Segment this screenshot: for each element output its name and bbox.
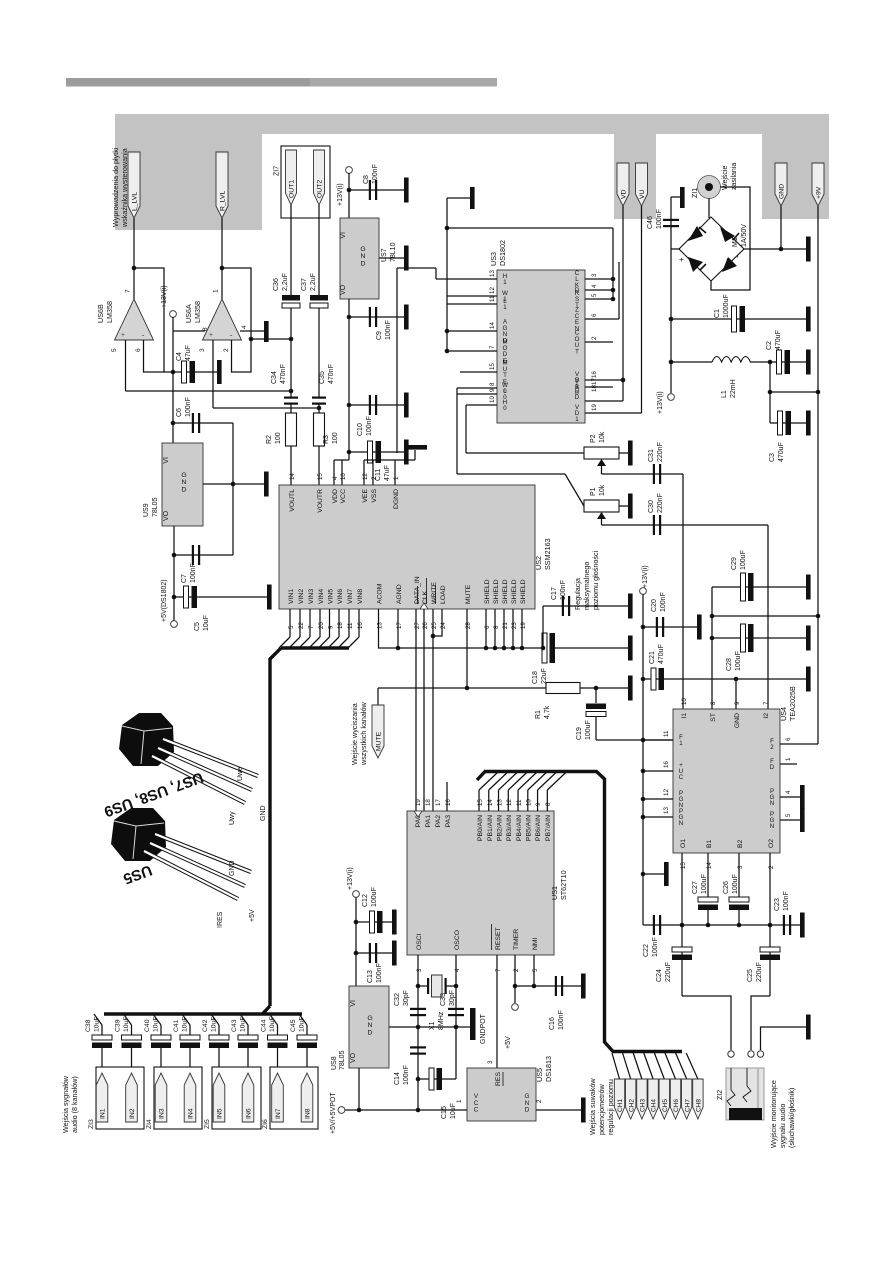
svg-text:OUT2: OUT2 [317, 180, 324, 198]
connector pin VD [617, 163, 629, 206]
svg-text:X1: X1 [429, 1021, 436, 1030]
wire jack sleeve to ground [761, 1027, 807, 1050]
wire 13V mcu rail [355, 898, 357, 987]
svg-text:CH2: CH2 [628, 1099, 635, 1112]
wire US6A plus input [212, 340, 214, 408]
svg-text:GND: GND [229, 860, 236, 876]
svg-text:N: N [182, 479, 187, 486]
connector pin CH7 [682, 1079, 692, 1119]
junction L1 out [768, 360, 773, 365]
svg-text:ZI6: ZI6 [262, 1119, 269, 1129]
svg-text:L1: L1 [721, 390, 728, 398]
svg-text:+5V: +5V [249, 909, 256, 922]
op-amp US6A LM358 [203, 299, 242, 340]
connector pin MUTE input [377, 688, 379, 705]
svg-text:13: 13 [377, 622, 384, 629]
wire C39 to pin [131, 1048, 133, 1073]
svg-text:470uF: 470uF [658, 644, 665, 664]
svg-text:C29: C29 [731, 557, 738, 570]
wire B2 down [738, 853, 740, 897]
wire OSCI down [417, 955, 419, 1110]
capacitor C3 470uF [770, 422, 806, 424]
svg-text:IN4: IN4 [188, 1108, 195, 1119]
svg-text:GNDPOT: GNDPOT [480, 1013, 487, 1044]
svg-text:ZI2: ZI2 [717, 1090, 724, 1100]
svg-text:28: 28 [465, 622, 472, 629]
svg-text:PB0/AIN: PB0/AIN [477, 815, 484, 841]
svg-text:D: D [770, 764, 775, 771]
svg-text:5: 5 [785, 813, 792, 817]
svg-text:11: 11 [516, 799, 523, 806]
connector pin IN3 [155, 1073, 167, 1122]
svg-text:P2: P2 [590, 434, 597, 443]
junction C9 [347, 315, 352, 320]
junction C8 [347, 188, 352, 193]
wire US7 VO down [348, 299, 350, 460]
ground C4 [217, 360, 222, 384]
net +5V(DS1802) [171, 621, 178, 628]
svg-text:27: 27 [414, 622, 421, 629]
wire US3 logic rail vertical [446, 198, 448, 296]
svg-text:10uF: 10uF [269, 1017, 276, 1033]
svg-text:C12: C12 [362, 894, 369, 907]
svg-text:VIN3: VIN3 [308, 589, 315, 604]
svg-text:47uF: 47uF [384, 465, 391, 481]
junction GND pin9 US4 [734, 677, 739, 682]
wire C6 line [173, 422, 233, 424]
capacitor C14 100nF [410, 1046, 426, 1048]
svg-text:OSCO: OSCO [454, 930, 461, 950]
connector pin CH8 [693, 1079, 703, 1119]
svg-text:VIN8: VIN8 [357, 589, 364, 604]
wire VD drop to pin16 pin18 [622, 206, 624, 401]
svg-text:audio (8 kanałów): audio (8 kanałów) [70, 1076, 79, 1133]
svg-text:8: 8 [545, 802, 552, 806]
svg-text:9: 9 [328, 625, 335, 629]
svg-text:C24: C24 [656, 969, 663, 982]
jack ZI2 black base [729, 1108, 762, 1120]
wire C38 to pin [101, 1048, 103, 1073]
capacitor C13 100nF [356, 952, 392, 954]
svg-text:10uF: 10uF [203, 615, 210, 631]
svg-text:100uF: 100uF [735, 651, 742, 671]
wire US6B feedback loop [134, 268, 164, 372]
svg-text:maksymalnego: maksymalnego [582, 562, 591, 610]
wire boucherot line [643, 924, 800, 926]
wire C1 line [671, 318, 806, 320]
bus audio-in thick [281, 646, 349, 649]
svg-text:RES: RES [495, 1072, 502, 1086]
ground C16 [581, 974, 586, 999]
svg-text:12: 12 [489, 287, 496, 294]
svg-text:Wejście: Wejście [722, 166, 729, 190]
svg-text:10uF: 10uF [211, 1017, 218, 1033]
svg-text:N: N [770, 800, 774, 807]
svg-text:C32: C32 [394, 993, 401, 1006]
svg-text:2: 2 [223, 348, 230, 352]
svg-text:OUT1: OUT1 [289, 180, 296, 198]
connector ZI3 box [96, 1067, 144, 1129]
wire GND pin9 up [735, 679, 737, 709]
svg-text:4: 4 [241, 325, 248, 329]
wire US3 logic rail horizontal [447, 227, 613, 229]
svg-text:VO: VO [340, 284, 347, 295]
junction C34 [289, 389, 294, 394]
svg-text:2: 2 [513, 968, 520, 972]
capacitor C26 100uF [729, 897, 749, 902]
svg-text:11: 11 [347, 622, 354, 629]
svg-text:R_LVL: R_LVL [220, 191, 227, 211]
capacitor C46 [663, 219, 679, 221]
svg-text:SHIELD: SHIELD [511, 579, 518, 604]
junction C21 [641, 677, 646, 682]
svg-text:24: 24 [440, 622, 447, 629]
wire US6A feedback loop [222, 268, 251, 372]
connector pin IN1 [96, 1073, 108, 1122]
svg-text:ZI4: ZI4 [146, 1119, 153, 1129]
wire US3 left rail [446, 296, 448, 351]
ground C23 [800, 913, 805, 938]
svg-text:10uF: 10uF [153, 1017, 160, 1033]
diode M1 bottom-left [688, 257, 703, 272]
svg-text:C16: C16 [549, 1017, 556, 1030]
svg-text:VU: VU [639, 189, 646, 199]
ground PGN left [643, 873, 664, 875]
svg-text:220nF: 220nF [657, 442, 664, 462]
svg-text:100nF: 100nF [366, 416, 373, 436]
svg-text:zasilania: zasilania [731, 163, 738, 190]
svg-text:22mH: 22mH [730, 379, 737, 398]
svg-text:100uF: 100uF [371, 887, 378, 907]
ground C21 [806, 667, 811, 692]
svg-text:VIN1: VIN1 [288, 589, 295, 604]
svg-text:6: 6 [591, 313, 598, 317]
wire +UC [643, 770, 673, 772]
wire US3 clk rail [612, 228, 614, 299]
wire VU drop to pin19 [641, 206, 643, 413]
svg-text:C18: C18 [532, 671, 539, 684]
junction US9 gnd [231, 482, 236, 487]
diode M1 top-right [720, 227, 735, 242]
svg-text:470uF: 470uF [778, 442, 785, 462]
diode M1 top-left [688, 226, 703, 241]
wire 13V opamp rail [172, 317, 174, 443]
svg-text:10: 10 [526, 799, 533, 806]
svg-text:4,7k: 4,7k [544, 705, 551, 719]
svg-text:11: 11 [663, 730, 670, 737]
svg-text:US6A: US6A [184, 304, 193, 323]
connector ZI4 box [154, 1067, 202, 1129]
svg-text:100uF: 100uF [740, 550, 747, 570]
svg-text:15: 15 [680, 862, 687, 869]
svg-text:LOAD: LOAD [440, 585, 447, 604]
capacitor C39 10uF [122, 1035, 142, 1040]
junction C35 bottom [317, 406, 322, 411]
svg-text:CH4: CH4 [651, 1099, 658, 1112]
capacitor C17 100nF [562, 596, 564, 616]
svg-text:78L05: 78L05 [152, 497, 159, 517]
svg-text:C4: C4 [176, 352, 183, 361]
ground bracket stem [414, 450, 416, 460]
junction US6B feedback [132, 266, 137, 271]
wire US6B output to L_LVL [133, 218, 135, 299]
net +5V/+5VPOT [338, 1107, 345, 1114]
svg-text:470uF: 470uF [775, 330, 782, 350]
wire US3 pin6 stub [585, 318, 619, 320]
svg-text:470nF: 470nF [280, 364, 287, 384]
capacitor C44 10uF [268, 1035, 288, 1040]
svg-text:VSS: VSS [371, 489, 378, 503]
junction +UC [641, 738, 646, 743]
clock mark OSCI [414, 811, 422, 817]
resistor R1 4.7k [546, 683, 580, 694]
svg-text:US4: US4 [779, 707, 788, 721]
svg-text:(słuchawki/głośnik): (słuchawki/głośnik) [787, 1088, 796, 1148]
svg-text:78L05: 78L05 [339, 1050, 346, 1070]
svg-text:AGND: AGND [396, 584, 403, 604]
svg-text:IN1: IN1 [100, 1108, 107, 1119]
svg-text:7: 7 [763, 701, 770, 705]
svg-text:SHIELD: SHIELD [502, 579, 509, 604]
wire OSCO down [455, 955, 457, 1079]
svg-text:3: 3 [591, 273, 598, 277]
svg-text:TIMER: TIMER [513, 929, 520, 950]
svg-text:100nF: 100nF [656, 209, 663, 229]
junction US6A feedback [220, 266, 225, 271]
svg-text:PB2/AIN: PB2/AIN [497, 815, 504, 841]
svg-text:C33: C33 [440, 993, 447, 1006]
bridge rectifier M1 diamond [679, 217, 744, 281]
wire to +9V rail [770, 391, 818, 393]
svg-text:O2: O2 [768, 839, 775, 848]
svg-text:MUTE: MUTE [465, 584, 472, 604]
wire US3 pin13 to VD net [436, 278, 497, 280]
ground US3 logic rail [447, 197, 470, 199]
svg-text:GND: GND [779, 184, 786, 199]
wire B1 down [707, 853, 709, 897]
svg-text:Regulacja: Regulacja [573, 578, 582, 610]
wire 13V rail [348, 173, 350, 218]
ground C9 [404, 305, 409, 330]
svg-text:IN7: IN7 [275, 1108, 282, 1119]
ground C28 [806, 626, 811, 651]
connector pin GND (power) [775, 163, 787, 206]
capacitor C9 100nF [349, 316, 404, 318]
jack ZI2 body [726, 1068, 764, 1120]
wire O2 to jack ring [751, 996, 770, 1050]
svg-text:1: 1 [456, 1099, 463, 1103]
svg-text:7: 7 [495, 968, 502, 972]
regulator US9 78L05 box [162, 443, 203, 526]
svg-text:T: T [575, 348, 579, 355]
wire US3 pin12 [447, 295, 497, 297]
wire O2 down [769, 853, 771, 996]
svg-text:C46: C46 [647, 216, 654, 229]
wire +9V rail down [817, 206, 819, 744]
svg-text:22: 22 [298, 622, 305, 629]
svg-text:PB3/AIN: PB3/AIN [506, 815, 513, 841]
svg-text:C10: C10 [357, 423, 364, 436]
svg-text:+9V: +9V [816, 186, 823, 199]
wire L1 out [750, 361, 770, 363]
svg-text:19: 19 [591, 404, 598, 411]
svg-text:10uF: 10uF [123, 1017, 130, 1033]
svg-text:US9: US9 [143, 503, 150, 517]
svg-text:O1: O1 [680, 839, 687, 848]
svg-text:PA2: PA2 [435, 815, 442, 828]
svg-text:3: 3 [487, 1060, 494, 1064]
svg-text:Wejścia suwaków: Wejścia suwaków [588, 1078, 597, 1135]
svg-text:23: 23 [511, 622, 518, 629]
junction SHIELD pins [485, 609, 487, 648]
svg-text:C25: C25 [747, 969, 754, 982]
svg-text:N: N [770, 823, 774, 830]
svg-text:Uwy: Uwy [229, 811, 236, 825]
svg-text:+13V(i): +13V(i) [161, 285, 168, 308]
svg-text:13: 13 [489, 270, 496, 277]
svg-text:100nF: 100nF [385, 320, 392, 340]
wire US3 pin10 [466, 404, 497, 406]
wire 9V cross line [712, 615, 818, 617]
svg-text:+: + [121, 331, 125, 339]
svg-text:26: 26 [422, 622, 429, 629]
svg-text:8: 8 [493, 625, 500, 629]
wire C41 to pin [189, 1048, 191, 1073]
svg-text:1: 1 [393, 476, 400, 480]
svg-text:5: 5 [591, 293, 598, 297]
svg-text:VI: VI [163, 457, 170, 464]
GNDPOT bar [470, 1008, 476, 1040]
capacitor C40 10uF [151, 1035, 171, 1040]
svg-text:100: 100 [332, 432, 339, 444]
svg-text:2: 2 [591, 336, 598, 340]
IC US5 DS1813 box [467, 1068, 536, 1121]
svg-text:poziomu głośności: poziomu głośności [591, 550, 600, 610]
capacitor C18 22uF [542, 633, 547, 663]
svg-text:+13V(i): +13V(i) [657, 391, 664, 414]
connector pin L_LVL [128, 152, 140, 218]
svg-text:C44: C44 [261, 1019, 268, 1032]
wire bridge right to ground [744, 248, 806, 250]
svg-text:LM358: LM358 [105, 301, 114, 323]
svg-text:100nF: 100nF [376, 963, 383, 983]
wire C16 line [515, 985, 581, 987]
capacitor C36 2.2uF [282, 295, 300, 308]
svg-text:US8: US8 [331, 1056, 338, 1070]
junction C36 to opamp A out [289, 337, 294, 342]
ground P1 [628, 494, 633, 519]
svg-text:G: G [367, 1015, 372, 1022]
capacitor C30 220nF [653, 515, 655, 535]
svg-text:3: 3 [199, 348, 206, 352]
connector pin IN2 [126, 1073, 138, 1122]
svg-text:1: 1 [785, 757, 792, 761]
IC US1 ST62T10 box [407, 811, 554, 955]
svg-text:25: 25 [431, 622, 438, 629]
svg-text:C17: C17 [551, 587, 558, 600]
clock mark US2 [420, 603, 428, 609]
leads US7 US8 US9 [163, 739, 258, 776]
svg-text:DS1802: DS1802 [498, 240, 507, 266]
capacitor C25 220uF [760, 947, 780, 952]
svg-text:16: 16 [663, 761, 670, 768]
connector pin CH6 [670, 1079, 680, 1119]
wire US6B plus input [125, 340, 127, 391]
svg-text:+5V/+5VPOT: +5V/+5VPOT [330, 1092, 337, 1134]
capacitor C28 100uF [712, 637, 806, 639]
IC US2 SSM2163 box [279, 485, 535, 609]
svg-text:6: 6 [785, 737, 792, 741]
junction C4 line [171, 370, 176, 375]
svg-text:C19: C19 [576, 727, 583, 740]
svg-text:4: 4 [591, 284, 598, 288]
wire ZI1 right loop [711, 187, 750, 290]
svg-text:VI: VI [350, 1000, 357, 1007]
capacitor C29 100uF [712, 586, 806, 588]
connector ZI6 box [270, 1067, 318, 1129]
wire PB fan [478, 790, 480, 811]
ground above C46 [671, 196, 680, 198]
potentiometer P1 10k [584, 500, 619, 512]
wire gndpot line [389, 1026, 470, 1028]
connector pin OUT1 [286, 150, 297, 205]
net +13V(i) at bridge [670, 362, 672, 393]
wire US8 VO down [358, 1068, 360, 1110]
svg-text:100nF: 100nF [560, 580, 567, 600]
svg-text:13: 13 [663, 807, 670, 814]
capacitor C31 220nF [653, 464, 655, 484]
svg-text:ZI5: ZI5 [204, 1119, 211, 1129]
svg-text:regulacji poziomu: regulacji poziomu [606, 1079, 615, 1135]
svg-text:C2: C2 [766, 341, 773, 350]
svg-text:100nF: 100nF [660, 592, 667, 612]
svg-text:CH6: CH6 [673, 1099, 680, 1112]
connector ZI1 (power jack) [698, 176, 721, 199]
connector pin CH2 [626, 1079, 636, 1119]
capacitor C7 100nF [174, 554, 233, 556]
svg-text:US2: US2 [534, 556, 543, 570]
wire LOAD join WRITE [433, 609, 442, 636]
ground US9 [264, 472, 269, 497]
svg-text:SHIELD: SHIELD [484, 579, 491, 604]
svg-text:ACOM: ACOM [377, 583, 384, 604]
capacitor C11 47uF [349, 451, 404, 453]
svg-text:10uF: 10uF [182, 1017, 189, 1033]
capacitor C42 10uF [209, 1035, 229, 1040]
capacitor C27 100uF [698, 897, 718, 902]
wire P1 left diagonal [457, 473, 565, 475]
junction C10 [347, 403, 352, 408]
wire P2 wiper line [602, 473, 684, 475]
wire WRITE to PA2 [432, 609, 434, 811]
wire C6/C7 right leg [232, 423, 234, 555]
capacitor C8 100nF [349, 189, 404, 191]
junction C19 [594, 686, 599, 691]
svg-text:100nF: 100nF [652, 937, 659, 957]
svg-text:19: 19 [520, 622, 527, 629]
svg-text:C31: C31 [648, 449, 655, 462]
svg-text:IN8: IN8 [305, 1108, 312, 1119]
leads US5 [155, 834, 251, 872]
svg-text:100nF: 100nF [403, 1065, 410, 1085]
wire C19 to F1 [596, 739, 673, 741]
svg-text:100nF: 100nF [783, 891, 790, 911]
capacitor C43 10uF [238, 1035, 258, 1040]
svg-text:9: 9 [734, 701, 741, 705]
svg-text:100uF: 100uF [701, 874, 708, 894]
svg-text:6: 6 [484, 625, 491, 629]
svg-text:US7: US7 [381, 248, 388, 262]
